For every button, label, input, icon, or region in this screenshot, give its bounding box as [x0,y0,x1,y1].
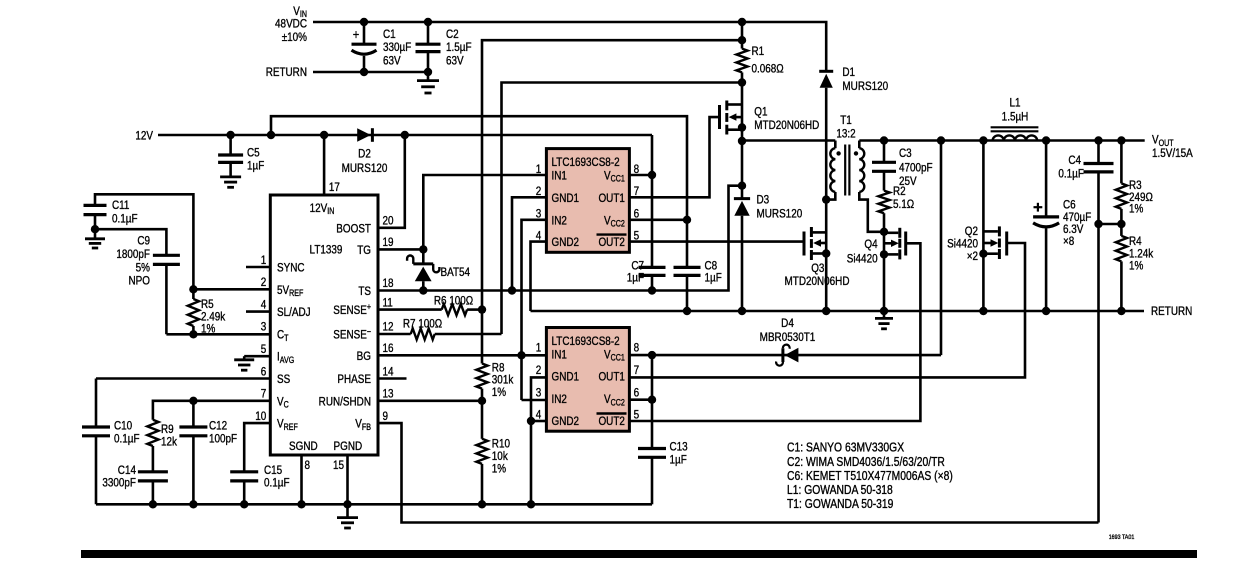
svg-text:Q4: Q4 [864,238,877,251]
svg-text:17: 17 [329,181,340,194]
svg-text:1.5µH: 1.5µH [1002,110,1029,123]
svg-text:6: 6 [634,386,640,399]
svg-text:7: 7 [261,388,267,401]
svg-text:OUT1: OUT1 [598,192,624,205]
svg-text:13:2: 13:2 [836,127,855,140]
svg-text:2: 2 [536,364,542,377]
svg-text:0.1µF: 0.1µF [112,212,138,225]
svg-text:LT1339: LT1339 [310,244,343,257]
svg-text:R1: R1 [752,45,765,58]
svg-text:SENSE−: SENSE− [333,327,371,342]
svg-text:C6: KEMET T510X477M006AS (×8): C6: KEMET T510X477M006AS (×8) [787,470,953,483]
svg-text:9: 9 [383,410,389,423]
svg-text:C2: WIMA SMD4036/1.5/63/20/TR: C2: WIMA SMD4036/1.5/63/20/TR [787,456,945,469]
svg-text:1µF: 1µF [670,454,687,467]
svg-text:BG: BG [357,350,371,363]
svg-text:LTC1693CS8-2: LTC1693CS8-2 [552,335,620,348]
svg-text:7: 7 [634,364,640,377]
svg-text:C12: C12 [209,420,227,433]
svg-text:1%: 1% [1129,203,1143,216]
svg-text:11: 11 [383,296,393,309]
svg-text:1µF: 1µF [247,160,264,173]
svg-text:MURS120: MURS120 [342,162,388,175]
svg-text:SYNC: SYNC [277,262,305,275]
svg-text:Si4420: Si4420 [947,237,978,250]
svg-text:14: 14 [383,365,394,378]
svg-text:IN1: IN1 [552,348,567,361]
svg-text:Q1: Q1 [754,106,767,119]
svg-text:0.068Ω: 0.068Ω [752,63,784,76]
svg-text:5: 5 [634,409,640,422]
svg-text:1%: 1% [1129,259,1143,272]
svg-text:MTD20N06HD: MTD20N06HD [784,275,849,288]
svg-text:1: 1 [536,342,542,355]
svg-text:Q3: Q3 [811,262,824,275]
svg-text:5%: 5% [136,261,150,274]
svg-text:GND2: GND2 [552,415,580,428]
svg-text:RETURN: RETURN [266,66,307,79]
svg-text:1µF: 1µF [627,271,644,284]
svg-text:4: 4 [536,230,542,243]
svg-text:2: 2 [536,185,542,198]
svg-text:5: 5 [261,343,267,356]
svg-text:R2: R2 [893,185,906,198]
svg-text:2.49k: 2.49k [201,310,226,323]
svg-text:RETURN: RETURN [1151,305,1192,318]
svg-text:13: 13 [383,388,394,401]
svg-text:IN2: IN2 [552,214,567,227]
svg-text:D3: D3 [757,194,770,207]
svg-text:R7 100Ω: R7 100Ω [403,317,442,330]
svg-text:1µF: 1µF [705,271,722,284]
svg-text:C9: C9 [137,235,150,248]
svg-text:R8: R8 [492,361,505,374]
svg-text:7: 7 [634,185,640,198]
svg-text:0.1µF: 0.1µF [1058,167,1084,180]
svg-text:301k: 301k [492,374,514,387]
svg-text:6: 6 [261,365,267,378]
svg-text:4700pF: 4700pF [899,161,933,174]
svg-text:63V: 63V [383,55,401,68]
svg-text:GND1: GND1 [552,192,580,205]
svg-text:T1: T1 [840,114,852,127]
svg-text:6: 6 [634,207,640,220]
svg-text:TS: TS [358,285,371,298]
svg-text:BAT54: BAT54 [441,266,471,279]
svg-text:OUT2: OUT2 [598,236,624,249]
svg-text:R5: R5 [201,298,214,311]
svg-text:C4: C4 [1068,154,1081,167]
svg-text:1.5µF: 1.5µF [446,41,472,54]
svg-text:L1: GOWANDA 50-318: L1: GOWANDA 50-318 [787,484,893,497]
svg-text:NPO: NPO [129,275,151,288]
svg-text:SS: SS [277,373,290,386]
svg-text:C10: C10 [114,420,132,433]
svg-text:19: 19 [383,236,394,249]
svg-text:C15: C15 [264,464,282,477]
svg-text:SL/ADJ: SL/ADJ [277,306,311,319]
svg-text:48VDC: 48VDC [275,18,307,31]
svg-text:C14: C14 [118,464,136,477]
svg-text:MURS120: MURS120 [842,80,888,93]
svg-text:4: 4 [261,298,267,311]
svg-text:5: 5 [634,230,640,243]
svg-text:12V: 12V [135,129,153,142]
svg-text:PGND: PGND [334,440,363,453]
svg-text:R6 100Ω: R6 100Ω [434,294,473,307]
svg-text:×8: ×8 [1063,235,1074,248]
svg-text:C5: C5 [247,146,260,159]
svg-text:C1: SANYO 63MV330GX: C1: SANYO 63MV330GX [787,442,904,455]
svg-text:C13: C13 [670,441,688,454]
svg-text:L1: L1 [1009,97,1020,110]
svg-text:TG: TG [357,244,371,257]
svg-text:330µF: 330µF [383,41,411,54]
svg-text:16: 16 [383,342,394,355]
svg-text:D2: D2 [358,147,371,160]
svg-text:IN2: IN2 [552,393,567,406]
svg-text:3300pF: 3300pF [102,477,136,490]
svg-text:0.1µF: 0.1µF [114,432,140,445]
svg-text:GND1: GND1 [552,371,580,384]
svg-text:0.1µF: 0.1µF [264,477,290,490]
svg-text:3: 3 [536,207,542,220]
svg-text:C11: C11 [112,199,129,212]
svg-text:PHASE: PHASE [337,373,371,386]
svg-text:1.5V/15A: 1.5V/15A [1152,147,1193,160]
svg-text:±10%: ±10% [282,31,307,44]
svg-text:1693 TA01: 1693 TA01 [1109,535,1135,542]
svg-text:BOOST: BOOST [336,222,371,235]
svg-text:T1: GOWANDA 50-319: T1: GOWANDA 50-319 [787,498,893,511]
svg-text:MTD20N06HD: MTD20N06HD [754,119,819,132]
svg-text:3: 3 [536,386,542,399]
svg-text:R9: R9 [161,423,174,436]
svg-text:MBR0530T1: MBR0530T1 [760,331,816,344]
svg-text:1: 1 [261,254,267,267]
svg-text:10k: 10k [492,450,508,463]
svg-text:3: 3 [261,321,267,334]
svg-text:8: 8 [634,342,640,355]
svg-text:63V: 63V [446,55,464,68]
svg-text:1%: 1% [201,323,215,336]
svg-text:4: 4 [536,409,542,422]
svg-text:5.1Ω: 5.1Ω [893,198,914,211]
svg-text:C2: C2 [446,28,459,41]
svg-text:C3: C3 [899,147,912,160]
svg-text:1: 1 [536,163,542,176]
svg-text:1%: 1% [492,386,506,399]
svg-text:LTC1693CS8-2: LTC1693CS8-2 [552,156,620,169]
svg-text:IN1: IN1 [552,170,567,183]
svg-text:12k: 12k [161,436,177,449]
svg-text:D1: D1 [842,66,855,79]
svg-text:C1: C1 [383,28,396,41]
svg-text:GND2: GND2 [552,236,580,249]
svg-text:SENSE+: SENSE+ [333,302,371,317]
svg-text:12: 12 [383,321,394,334]
svg-text:18: 18 [383,277,394,290]
svg-text:×2: ×2 [967,250,978,263]
svg-text:1%: 1% [492,463,506,476]
svg-text:2: 2 [261,276,267,289]
svg-text:RUN/SHDN: RUN/SHDN [319,395,371,408]
svg-text:OUT1: OUT1 [598,371,624,384]
svg-text:10: 10 [255,410,266,423]
svg-text:8: 8 [634,163,640,176]
svg-text:8: 8 [305,459,311,472]
svg-text:SGND: SGND [289,440,318,453]
svg-text:D4: D4 [781,317,794,330]
svg-text:+: + [353,27,360,42]
svg-text:MURS120: MURS120 [757,208,803,221]
svg-text:R10: R10 [492,437,510,450]
svg-text:20: 20 [383,215,394,228]
svg-text:Si4420: Si4420 [847,252,878,265]
svg-text:1800pF: 1800pF [116,248,150,261]
svg-text:15: 15 [333,459,344,472]
svg-text:OUT2: OUT2 [598,415,624,428]
svg-text:100pF: 100pF [209,432,237,445]
